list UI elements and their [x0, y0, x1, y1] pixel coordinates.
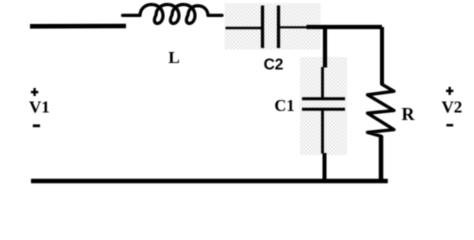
svg-text:L: L	[168, 48, 179, 67]
svg-text:C1: C1	[274, 96, 294, 115]
wire bottom	[31, 179, 388, 184]
wire top-right	[307, 25, 383, 29]
inductor L	[123, 4, 222, 23]
wire R branch top	[380, 27, 384, 85]
capacitor C2	[226, 6, 308, 49]
svg-text:C2: C2	[264, 57, 284, 74]
svg-text:V1: V1	[29, 98, 50, 117]
resistor R	[368, 85, 395, 137]
svg-text:R: R	[402, 104, 416, 124]
wire top-left	[30, 24, 126, 29]
capacitor C1	[302, 67, 345, 154]
node V1 plus	[31, 88, 38, 96]
node V2 minus	[446, 124, 453, 127]
svg-text:V2: V2	[442, 98, 463, 117]
wire C1 branch top	[323, 27, 327, 68]
node V2 plus	[446, 87, 453, 95]
wire C1 branch bottom	[323, 153, 327, 181]
wire R branch bottom	[379, 136, 384, 182]
node V1 minus	[33, 124, 40, 127]
